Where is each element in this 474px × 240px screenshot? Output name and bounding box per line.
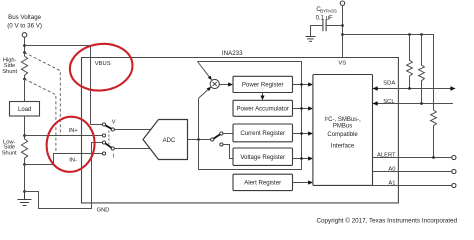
- svg-text:ALERT: ALERT: [377, 152, 396, 158]
- svg-text:I: I: [113, 154, 115, 160]
- node rail R2: [420, 33, 423, 36]
- wire ADC output: [188, 139, 211, 141]
- arrowhead into multiplier upper: [208, 76, 212, 81]
- svg-text:Compatible: Compatible: [327, 132, 358, 138]
- wire current register output: [293, 133, 309, 135]
- svg-text:SCL: SCL: [383, 99, 395, 105]
- svg-text:0.1 µF: 0.1 µF: [316, 16, 333, 22]
- wire pull-up rail: [343, 35, 434, 111]
- switch SI throw 4: [102, 152, 105, 155]
- wire IN+: [25, 135, 103, 137]
- resistor R2 SCL pull-up: [419, 35, 425, 104]
- wire A0: [373, 171, 452, 173]
- wire voltage register output: [293, 158, 309, 160]
- svg-text:ADC: ADC: [163, 138, 176, 144]
- svg-text:A0: A0: [388, 166, 395, 172]
- svg-text:Current Register: Current Register: [240, 130, 285, 137]
- svg-text:IN-: IN-: [69, 158, 77, 164]
- wire capacitor to ground: [311, 26, 323, 37]
- dashed wire high-side to IN-: [25, 79, 56, 154]
- wire to voltage register: [223, 145, 233, 159]
- node bus/current line: [300, 132, 303, 135]
- wire data bus ring: [198, 62, 302, 170]
- wire SCL: [373, 103, 454, 105]
- svg-text:Power Accumulator: Power Accumulator: [236, 106, 289, 113]
- wire power accumulator output: [293, 108, 309, 110]
- switch SI arm: [105, 143, 111, 148]
- dashed wire high-side to IN+: [25, 53, 61, 136]
- wire SDA: [373, 88, 452, 90]
- svg-text:Alert Register: Alert Register: [244, 180, 281, 187]
- switch SV throw 1: [102, 123, 105, 126]
- svg-text:Shunt: Shunt: [2, 69, 17, 75]
- wire shunt to ground: [24, 165, 26, 192]
- wire capacitor to VS: [326, 25, 342, 27]
- wire power register output: [293, 84, 309, 86]
- resistor low-side shunt: [21, 139, 27, 165]
- terminal ALERT: [452, 155, 456, 159]
- demux switch lower circle: [220, 143, 223, 146]
- demux switch left circle: [211, 138, 214, 141]
- wire load to low-side shunt: [24, 116, 26, 139]
- svg-text:Voltage Register: Voltage Register: [240, 154, 285, 161]
- node ALERT pull-up: [432, 156, 435, 159]
- svg-text:Interface: Interface: [331, 144, 355, 150]
- node rail R1: [408, 33, 411, 36]
- demux switch upper circle: [220, 132, 223, 135]
- multiplier U2 circle: [210, 79, 219, 88]
- wire A1: [373, 185, 452, 187]
- svg-text:Load: Load: [18, 107, 31, 113]
- power accumulator box: [233, 100, 293, 116]
- ground symbol bypass: [306, 37, 316, 42]
- red ellipse IN highlight: [44, 114, 98, 175]
- svg-text:Bus Voltage: Bus Voltage: [8, 14, 42, 21]
- op-amp ADC pentagon: [143, 120, 188, 160]
- wire multiplier to power register: [219, 84, 229, 86]
- resistor R3 ALERT pull-up: [431, 110, 437, 158]
- current register box: [233, 124, 293, 142]
- wire V to ADC: [114, 129, 152, 131]
- node SDA pull-up: [408, 87, 411, 90]
- arrowhead into power register: [228, 82, 233, 86]
- power register box: [233, 76, 293, 92]
- wire ALERT: [373, 157, 452, 159]
- wire VS pin: [342, 5, 344, 57]
- switch SV throw 2: [102, 134, 105, 137]
- alert register box: [233, 174, 293, 190]
- switch SV common V: [111, 128, 114, 131]
- IC INA233 outline box: [82, 58, 399, 203]
- arrow power register to accumulator: [262, 93, 264, 97]
- terminal VS supply: [340, 1, 344, 5]
- wire diagonal VBUS to multiplier: [198, 62, 210, 77]
- arrowhead into multiplier lower: [207, 87, 212, 91]
- label high-side shunt: [2, 57, 17, 75]
- svg-text:PMBus: PMBus: [333, 123, 352, 129]
- svg-text:SDA: SDA: [383, 81, 395, 87]
- svg-text:A1: A1: [388, 180, 395, 186]
- svg-text:Power Register: Power Register: [242, 82, 284, 89]
- node IN+: [23, 134, 26, 137]
- svg-text:I2C-, SMBus-,: I2C-, SMBus-,: [324, 116, 361, 123]
- wire IN-: [25, 154, 103, 165]
- node cap junction: [341, 24, 344, 27]
- label low-side shunt: [2, 139, 17, 156]
- node bus/VBUS junction: [23, 44, 26, 47]
- label bus voltage: [7, 14, 42, 29]
- wire diagonal ADC to multiplier: [199, 89, 209, 98]
- wire external ground loop to GND pin: [25, 143, 103, 209]
- red ellipse VBUS highlight: [67, 40, 135, 94]
- svg-text:BYPASS: BYPASS: [320, 9, 337, 14]
- svg-text:IN+: IN+: [69, 128, 79, 134]
- node bus/voltage line: [300, 157, 303, 160]
- svg-text:(0 V to 36 V): (0 V to 36 V): [7, 23, 42, 30]
- resistor high-side shunt: [21, 56, 27, 79]
- wire shunt to load: [24, 79, 26, 102]
- svg-text:V: V: [112, 119, 116, 125]
- node ADC output junction: [197, 138, 200, 141]
- svg-text:Copyright © 2017, Texas Instru: Copyright © 2017, Texas Instruments Inco…: [317, 216, 458, 224]
- svg-text:VS: VS: [338, 61, 346, 67]
- ground symbol left: [18, 192, 32, 206]
- voltage register box: [233, 148, 293, 165]
- node ground tee: [23, 190, 26, 193]
- node bus/accumulator line: [300, 107, 303, 110]
- wire I to ADC: [114, 148, 149, 150]
- wire VBUS to switch: [25, 46, 103, 125]
- switch SI throw 3: [102, 141, 105, 144]
- node SCL pull-up: [420, 102, 423, 105]
- node rail junction: [341, 33, 344, 36]
- svg-text:VBUS: VBUS: [95, 61, 111, 67]
- load box: [10, 102, 40, 117]
- node bus/power line: [300, 83, 303, 86]
- wire to current register: [223, 133, 233, 135]
- dashed gang link: [108, 131, 110, 148]
- capacitor C_BYPASS: [323, 20, 326, 32]
- node high-side shunt bottom: [23, 78, 26, 81]
- svg-text:INA233: INA233: [222, 50, 243, 57]
- terminal J1 bus voltage: [22, 33, 27, 38]
- terminal A0: [452, 169, 456, 173]
- switch SV arm: [105, 125, 111, 129]
- node high-side shunt top: [23, 51, 26, 54]
- switch SI common I: [111, 147, 114, 150]
- terminal A1: [452, 183, 456, 187]
- wire alert register output: [293, 182, 309, 184]
- interface box: [313, 75, 373, 186]
- resistor R1 SDA pull-up: [407, 35, 413, 89]
- svg-text:Shunt: Shunt: [2, 150, 17, 156]
- svg-text:GND: GND: [97, 207, 110, 213]
- demux switch arm: [214, 134, 220, 138]
- node IN-: [23, 163, 26, 166]
- wire bus input vertical: [24, 37, 26, 56]
